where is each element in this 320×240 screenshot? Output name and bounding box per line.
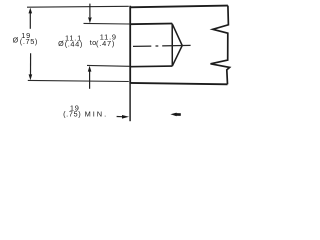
svg-text:Ø: Ø [58,39,64,48]
svg-text:(.75): (.75) [20,37,38,46]
hole bottom wall [130,65,172,68]
Ø11 bottom ext line (hole dia) [87,64,130,67]
part left face [129,6,131,84]
19 MIN dim line + right arrow [117,116,123,118]
Ø19 bottom extension line [28,80,129,81]
part outline: bottom edge [130,83,228,84]
Ø19 top extension line [27,5,129,8]
drill cone upper edge [172,24,182,46]
drill cone lower edge [172,46,182,67]
svg-text:(.75): (.75) [63,109,81,118]
hole top wall [130,23,172,26]
Ø11 dim line upper + down arrow [89,4,91,18]
centerline dash-dot [133,45,191,46]
svg-text:(.47): (.47) [96,39,115,48]
Ø19 dimension line lower + down arrow [30,53,32,74]
Ø19 dimension line upper + up arrow [29,13,31,29]
drill cone base [171,24,173,67]
Ø11 dim line lower + up arrow [89,70,91,89]
svg-text:MIN.: MIN. [85,110,109,119]
part outline: top edge [130,6,228,8]
Ø11 top ext line (hole dia) [84,22,130,25]
part outline: right edge with break zigzags [211,6,230,85]
floating left arrow (depth reference) [170,113,176,117]
svg-text:(.44): (.44) [65,39,83,48]
svg-text:Ø: Ø [13,35,19,44]
extension line below face (19 MIN dim) [129,84,131,122]
